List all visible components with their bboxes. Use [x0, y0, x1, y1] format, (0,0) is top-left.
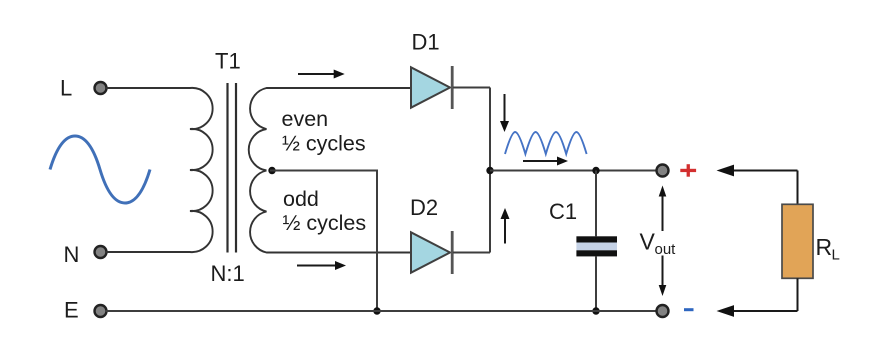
wire RL bottom lead	[797, 278, 799, 311]
svg-text:C1: C1	[549, 199, 577, 224]
terminal N	[95, 246, 107, 258]
transformer T1 secondary winding top half with wire to D1 anode	[249, 88, 411, 171]
arrow current to load below rectified waveform	[523, 157, 568, 166]
svg-text:½ cycles: ½ cycles	[282, 132, 366, 156]
svg-text:R: R	[816, 234, 833, 260]
arrow current up from D2	[501, 208, 510, 244]
svg-text:½ cycles: ½ cycles	[283, 211, 367, 235]
terminal E	[95, 305, 107, 317]
junction C1 bottom	[592, 307, 599, 314]
label RL	[816, 234, 840, 264]
label even half cycles	[282, 107, 366, 156]
wire D1 cathode to output node	[453, 87, 490, 89]
diode D2	[411, 231, 452, 274]
label Vout	[640, 229, 677, 259]
capacitor C1	[576, 171, 617, 312]
AC sine waveform	[50, 136, 150, 203]
svg-text:L: L	[60, 76, 72, 101]
wire output node to plus terminal	[490, 170, 656, 172]
arrow and wire from RL to minus terminal	[717, 305, 798, 317]
diode D1	[411, 66, 452, 109]
svg-text:E: E	[64, 298, 79, 323]
svg-text:out: out	[655, 241, 677, 258]
arrow Vout up	[659, 186, 667, 232]
svg-text:T1: T1	[215, 49, 241, 74]
wire joining D1 and D2 cathodes	[489, 88, 491, 253]
svg-text:D1: D1	[412, 30, 440, 55]
svg-text:D2: D2	[410, 195, 438, 220]
arrow Vout down	[659, 256, 667, 297]
transformer T1 core	[228, 83, 237, 253]
svg-text:V: V	[640, 229, 656, 255]
transformer T1 primary winding with wires from L and N	[105, 88, 213, 252]
resistor RL	[782, 204, 813, 278]
arrow and wire from RL to plus terminal	[717, 165, 798, 177]
transformer T1 secondary winding bottom half with wire to D2 anode	[250, 171, 411, 253]
svg-text:odd: odd	[283, 187, 319, 211]
svg-text:even: even	[282, 107, 329, 131]
junction output node	[486, 167, 493, 174]
arrow current into D2	[297, 261, 346, 270]
wire RL top lead	[797, 171, 799, 205]
wire D2 cathode to output node	[453, 252, 490, 254]
svg-text:L: L	[832, 247, 840, 264]
junction center tap wire on E line	[373, 307, 380, 314]
rectified waveform	[505, 132, 587, 154]
terminal plus output	[657, 165, 669, 177]
terminal minus output	[657, 305, 669, 317]
label odd half cycles	[283, 187, 367, 235]
terminal L	[95, 82, 107, 94]
label minus	[684, 308, 694, 311]
svg-text:N: N	[64, 242, 80, 267]
svg-text:N:1: N:1	[211, 261, 245, 286]
wire E line	[105, 310, 656, 312]
label plus	[680, 164, 696, 177]
arrow current into D1	[298, 70, 345, 79]
node center tap	[268, 167, 275, 174]
arrow current down from D1	[500, 94, 509, 132]
wire center tap to E line	[270, 171, 377, 312]
junction C1 top	[592, 167, 599, 174]
